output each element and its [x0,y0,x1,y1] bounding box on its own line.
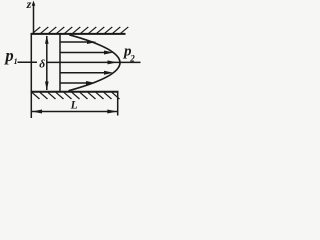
left boundary and L extension line [30,34,32,119]
bottom wall line [31,91,119,93]
datum line of velocity profile [59,35,61,92]
parabolic velocity profile [69,35,121,91]
p1 leader line [18,61,38,63]
velocity arrow v1 [60,40,97,44]
svg-text:L: L [70,100,78,112]
bottom wall hatching [32,92,120,99]
velocity arrow v4 [60,71,114,75]
velocity arrow v5 [60,81,96,85]
centerline with mid velocity arrow v3 [47,60,141,64]
top wall line [31,33,126,35]
svg-text:1: 1 [14,57,18,66]
L dimension line [32,110,117,114]
L dimension right extension [117,93,119,116]
top wall hatching [33,27,129,34]
z axis [32,1,36,34]
svg-text:p: p [3,46,13,65]
delta dimension line [45,35,49,90]
velocity arrow v2 [60,51,114,55]
svg-text:z: z [26,0,32,11]
svg-text:δ: δ [39,58,45,70]
